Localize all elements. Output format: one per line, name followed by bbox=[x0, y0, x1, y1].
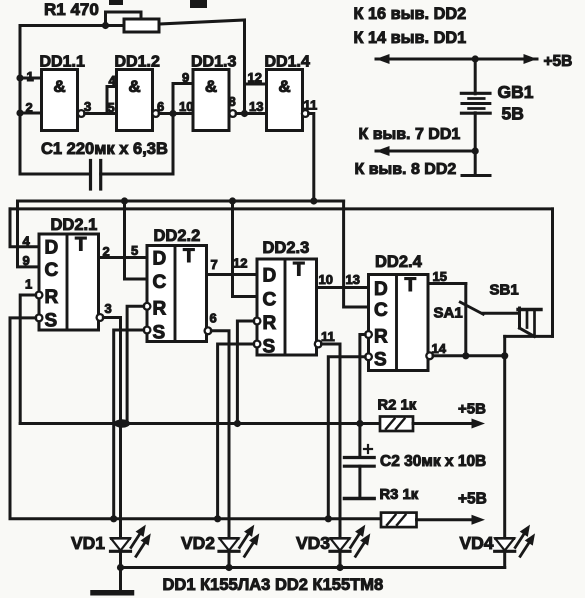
svg-text:4: 4 bbox=[23, 234, 31, 249]
svg-text:С1 220мк х 6,3В: С1 220мк х 6,3В bbox=[41, 140, 168, 158]
svg-text:C: C bbox=[45, 260, 59, 281]
svg-text:R: R bbox=[263, 313, 277, 334]
svg-text:DD1.3: DD1.3 bbox=[191, 54, 236, 71]
svg-text:К выв. 7 DD1: К выв. 7 DD1 bbox=[359, 126, 461, 143]
svg-text:D: D bbox=[153, 249, 167, 270]
svg-text:6: 6 bbox=[210, 311, 217, 326]
svg-text:D: D bbox=[263, 266, 277, 287]
svg-text:S: S bbox=[263, 337, 276, 358]
svg-text:VD4: VD4 bbox=[460, 533, 494, 553]
svg-text:&: & bbox=[278, 77, 290, 96]
svg-text:T: T bbox=[75, 235, 87, 256]
svg-text:VD1: VD1 bbox=[71, 533, 105, 553]
svg-text:DD1 К155ЛА3 DD2 К155ТМ8: DD1 К155ЛА3 DD2 К155ТМ8 bbox=[163, 576, 384, 594]
svg-text:+5В: +5В bbox=[458, 491, 487, 508]
svg-text:9: 9 bbox=[182, 70, 189, 85]
svg-text:S: S bbox=[153, 323, 166, 344]
svg-text:DD2.3: DD2.3 bbox=[263, 239, 310, 257]
svg-text:10: 10 bbox=[179, 99, 193, 114]
svg-text:&: & bbox=[128, 77, 140, 96]
svg-text:3: 3 bbox=[84, 99, 91, 114]
svg-text:К 16 выв. DD2: К 16 выв. DD2 bbox=[354, 5, 467, 23]
svg-text:К выв. 8 DD2: К выв. 8 DD2 bbox=[355, 161, 457, 178]
svg-text:C: C bbox=[153, 272, 167, 293]
svg-text:5В: 5В bbox=[502, 104, 524, 124]
svg-text:SB1: SB1 bbox=[490, 282, 519, 299]
svg-text:R: R bbox=[153, 298, 167, 319]
svg-text:8: 8 bbox=[229, 94, 236, 109]
svg-text:DD2.1: DD2.1 bbox=[51, 216, 98, 234]
svg-text:R2 1к: R2 1к bbox=[378, 398, 417, 414]
svg-text:7: 7 bbox=[211, 257, 218, 272]
svg-text:12: 12 bbox=[233, 256, 247, 271]
svg-text:2: 2 bbox=[26, 100, 33, 115]
svg-text:C: C bbox=[374, 300, 388, 321]
svg-text:9: 9 bbox=[23, 253, 30, 268]
svg-text:DD2.2: DD2.2 bbox=[154, 227, 201, 245]
svg-text:11: 11 bbox=[304, 98, 318, 113]
svg-text:D: D bbox=[45, 238, 59, 259]
svg-text:&: & bbox=[205, 77, 217, 96]
svg-text:DD1.4: DD1.4 bbox=[265, 54, 310, 71]
svg-text:+5В: +5В bbox=[458, 401, 486, 418]
svg-text:R: R bbox=[45, 287, 59, 308]
svg-text:S: S bbox=[374, 349, 387, 370]
svg-text:DD1.2: DD1.2 bbox=[115, 54, 160, 71]
svg-text:SA1: SA1 bbox=[434, 305, 463, 322]
svg-text:+5В: +5В bbox=[544, 53, 573, 70]
svg-text:11: 11 bbox=[321, 329, 335, 344]
svg-text:13: 13 bbox=[249, 99, 263, 114]
svg-text:VD3: VD3 bbox=[296, 533, 330, 553]
svg-text:T: T bbox=[405, 275, 417, 296]
svg-text:DD1.1: DD1.1 bbox=[40, 54, 85, 71]
svg-text:10: 10 bbox=[319, 272, 333, 287]
svg-text:D: D bbox=[374, 279, 388, 300]
svg-text:3: 3 bbox=[105, 301, 112, 316]
svg-text:T: T bbox=[183, 246, 195, 267]
svg-text:R3 1к: R3 1к bbox=[380, 487, 419, 503]
svg-text:С2 30мк х 10В: С2 30мк х 10В bbox=[380, 453, 486, 470]
svg-text:1: 1 bbox=[27, 69, 34, 84]
svg-text:T: T bbox=[293, 260, 305, 281]
svg-text:13: 13 bbox=[346, 272, 360, 287]
svg-text:2: 2 bbox=[103, 244, 110, 259]
svg-text:6: 6 bbox=[157, 99, 164, 114]
svg-text:14: 14 bbox=[432, 341, 447, 356]
svg-text:R: R bbox=[374, 327, 388, 348]
svg-text:R1 470: R1 470 bbox=[44, 0, 99, 19]
svg-text:К 14 выв. DD1: К 14 выв. DD1 bbox=[354, 29, 467, 47]
svg-text:1: 1 bbox=[25, 277, 32, 292]
svg-text:C: C bbox=[263, 290, 277, 311]
svg-text:GB1: GB1 bbox=[498, 82, 534, 102]
svg-text:VD2: VD2 bbox=[181, 533, 215, 553]
svg-text:15: 15 bbox=[433, 269, 447, 284]
svg-text:5: 5 bbox=[131, 243, 138, 258]
svg-text:12: 12 bbox=[248, 70, 262, 85]
svg-text:4: 4 bbox=[109, 73, 117, 88]
svg-text:5: 5 bbox=[108, 100, 115, 115]
svg-text:DD2.4: DD2.4 bbox=[375, 253, 423, 271]
svg-text:S: S bbox=[45, 310, 58, 331]
svg-text:&: & bbox=[53, 77, 65, 96]
